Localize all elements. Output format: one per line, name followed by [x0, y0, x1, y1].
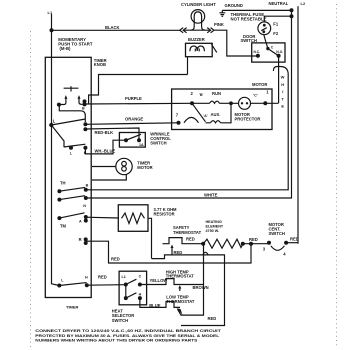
wire cent switch to L2: [286, 242, 298, 244]
junction aux/run: [229, 101, 233, 105]
svg-text:NEUTRAL: NEUTRAL: [269, 1, 289, 6]
wrinkle arm: [126, 134, 141, 140]
wire element to cent switch: [243, 243, 269, 245]
door switch C contact: [266, 47, 269, 50]
svg-text:HEATING: HEATING: [206, 220, 222, 224]
svg-text:THERMOSTAT: THERMOSTAT: [173, 230, 202, 235]
svg-text:RED: RED: [290, 236, 299, 241]
svg-text:CYLINDER LIGHT: CYLINDER LIGHT: [181, 2, 216, 7]
label WHITE vertical: [281, 75, 285, 109]
svg-text:THERMOSTAT: THERMOSTAT: [166, 274, 195, 279]
svg-text:'A': 'A': [203, 114, 208, 118]
svg-text:TIMER: TIMER: [66, 305, 79, 310]
svg-text:1A: 1A: [139, 143, 144, 147]
wire ORANGE: [85, 123, 178, 125]
timer arm TM-A: [59, 213, 84, 218]
wire YELLOW + high temp thermostat: [140, 279, 204, 285]
timer L junction: [49, 123, 53, 127]
svg-text:MOTOR: MOTOR: [252, 82, 267, 87]
low stat arrowhead: [177, 308, 183, 315]
buzzer box: [186, 43, 213, 56]
svg-text:RED: RED: [174, 250, 183, 255]
svg-text:N: N: [83, 204, 86, 208]
motor box: [172, 89, 272, 130]
timer H row: L contact: [57, 284, 61, 288]
wire door N.O. down to motor: [278, 56, 280, 103]
svg-text:PINK: PINK: [214, 22, 224, 27]
timer L-B contacts (lower): [69, 146, 73, 150]
svg-text:4750 W.: 4750 W.: [206, 229, 220, 233]
svg-text:NUMBERS WHEN WRITING ABOUT THI: NUMBERS WHEN WRITING ABOUT THIS DRYER OR…: [35, 337, 197, 342]
resistor box: [118, 205, 148, 232]
svg-text:WHITE: WHITE: [204, 192, 218, 197]
svg-text:BUZZER: BUZZER: [188, 37, 205, 42]
svg-text:THERMOSTAT: THERMOSTAT: [166, 299, 195, 304]
junction element right: [241, 242, 245, 246]
safety thermostat: [163, 238, 203, 244]
motor contact 7: [177, 121, 181, 125]
buzzer left lead: [187, 57, 189, 75]
ground symbol: [219, 10, 225, 16]
wire L2 vertical to heating row: [297, 6, 299, 243]
door switch N.O. contact: [277, 54, 281, 58]
motor contact 1: [263, 101, 267, 105]
svg-text:H: H: [139, 292, 142, 296]
svg-text:AUX.: AUX.: [211, 112, 221, 117]
wire buzzer feed: [89, 75, 188, 104]
buzzer coil: [190, 46, 205, 51]
selector contacts: [124, 283, 128, 287]
selector common link: [125, 285, 127, 299]
timer B contact: [84, 188, 88, 192]
svg-text:RESISTOR: RESISTOR: [154, 212, 175, 217]
svg-text:RED: RED: [111, 257, 120, 262]
wire manifold leg through brown to low stat: [178, 244, 204, 315]
timer arm L lower fan: [51, 125, 64, 147]
wire BLACK horizontal: [52, 29, 181, 31]
right margin dotted border: [336, 4, 338, 348]
selector arm upper: [126, 279, 137, 284]
junction r-wire/heating row: [249, 242, 253, 246]
svg-text:BLUE: BLUE: [149, 303, 161, 308]
heat selector switch box: [119, 271, 147, 305]
motor protector: [239, 97, 251, 109]
svg-text:SWITCH: SWITCH: [150, 141, 166, 146]
timer N contact: [84, 196, 88, 200]
svg-text:F2: F2: [273, 31, 279, 36]
timer arm L-H: [59, 283, 86, 286]
svg-text:TM: TM: [60, 223, 67, 228]
timer arm TH-B: [59, 187, 85, 191]
svg-text:BLACK: BLACK: [105, 25, 120, 30]
left margin dotted border: [30, 31, 32, 348]
svg-text:R: R: [79, 237, 82, 242]
aux winding coil: [206, 103, 232, 123]
svg-text:WH.-BLUE: WH.-BLUE: [95, 149, 116, 154]
bottom note text: [35, 328, 221, 342]
svg-text:RUN: RUN: [212, 91, 221, 96]
door switch arm: [268, 49, 278, 56]
wire RED timer H to selector: [87, 284, 126, 287]
wire under cylinder light: [183, 29, 210, 31]
timer arm L to M: [51, 119, 85, 125]
svg-text:(M-B): (M-B): [60, 46, 72, 51]
svg-text:A: A: [79, 219, 82, 223]
svg-text:RED: RED: [98, 274, 107, 279]
wire push left contact hook to M: [59, 105, 85, 122]
svg-text:MOTOR: MOTOR: [137, 165, 152, 170]
wrinkle contacts: [124, 138, 128, 142]
svg-text:N.C.: N.C.: [254, 50, 261, 54]
svg-text:GROUND: GROUND: [225, 3, 243, 8]
svg-text:H: H: [281, 82, 284, 87]
push-to-start switch: [57, 86, 87, 106]
svg-text:L1: L1: [48, 10, 53, 15]
selector arm lower: [126, 293, 137, 298]
svg-text:ORANGE: ORANGE: [125, 116, 143, 121]
svg-text:I: I: [282, 89, 283, 94]
run winding coil: [192, 101, 239, 103]
svg-text:N.O.: N.O.: [276, 50, 283, 54]
wire RED-BLK to wrinkle switch: [85, 128, 139, 140]
wire protector to contact 1 and out: [251, 102, 279, 104]
door switch N.C. contact: [256, 54, 260, 58]
timer M contacts: [83, 122, 87, 126]
timer TH contacts: [57, 189, 61, 193]
wire resistor right lead: [148, 218, 152, 258]
svg-text:KNOB: KNOB: [94, 62, 106, 67]
junction neutral/top: [290, 8, 294, 12]
svg-text:B: B: [82, 107, 85, 111]
wire A to resistor: [86, 216, 119, 219]
svg-text:NOT RESETABLE: NOT RESETABLE: [231, 16, 267, 21]
wire WH.-BLUE: [85, 140, 126, 154]
motor contact 2: [190, 101, 194, 105]
svg-text:L1: L1: [122, 275, 126, 279]
wrinkle control switch box: [119, 133, 145, 148]
arrow tap to safety stat: [171, 247, 173, 255]
heating element zigzag: [203, 239, 243, 248]
timer motor: [92, 158, 132, 180]
svg-text:RED: RED: [208, 316, 217, 321]
svg-text:ELEMENT: ELEMENT: [206, 224, 224, 228]
svg-text:RED-BLK: RED-BLK: [95, 130, 114, 135]
junction L1/black: [50, 28, 54, 32]
svg-text:RED: RED: [186, 237, 195, 242]
svg-text:SWITCH: SWITCH: [269, 231, 285, 236]
motor arm 2 to aux: [192, 103, 206, 122]
svg-text:H: H: [85, 276, 88, 280]
cylinder light lamp: [191, 10, 206, 31]
svg-text:F1: F1: [273, 22, 279, 27]
svg-text:'C': 'C': [253, 93, 258, 97]
timer box: [45, 57, 91, 297]
connector chevrons left (black wire): [180, 28, 187, 33]
timer R contacts: [84, 237, 88, 241]
wire white1 from bracket down to timer B: [86, 75, 288, 190]
junction neutral/fuse: [290, 14, 294, 18]
motor centrifugal switch: [267, 241, 271, 245]
junction element left: [201, 242, 205, 246]
connector chevrons right (pink wire): [207, 28, 214, 33]
wire PURPLE: [85, 102, 193, 105]
svg-text:L2: L2: [301, 1, 306, 6]
svg-text:E: E: [281, 104, 284, 109]
wire pink to door switch N.C.: [214, 30, 258, 56]
svg-text:YELLOW: YELLOW: [150, 278, 168, 283]
harness bracket: [273, 67, 288, 75]
svg-text:TH: TH: [60, 180, 66, 185]
wire L1 bus vertical: [52, 14, 60, 286]
thermal fuse F1-F2: [258, 16, 292, 48]
wire BLUE + low temp thermostat: [140, 298, 180, 307]
svg-text:'B': 'B': [199, 93, 204, 97]
svg-text:B: B: [86, 183, 89, 187]
timer arm TH-N: [59, 196, 85, 200]
svg-text:PROTECTOR: PROTECTOR: [235, 117, 261, 122]
svg-text:RED: RED: [249, 237, 258, 242]
manifold hop bump: [203, 252, 208, 255]
timer TM contact: [57, 216, 61, 220]
svg-text:W: W: [281, 75, 285, 80]
wire neutral top horizontal: [222, 9, 291, 11]
resistor zigzag: [122, 213, 145, 224]
svg-text:C: C: [139, 275, 142, 279]
wire R to heating row: [86, 241, 251, 263]
buzzer right lead: [211, 44, 216, 52]
svg-text:SWITCH: SWITCH: [112, 318, 128, 323]
svg-text:BROWN: BROWN: [193, 285, 209, 290]
svg-text:PURPLE: PURPLE: [125, 96, 142, 101]
door switch box: [252, 43, 285, 62]
centrifugal arc: [184, 117, 199, 122]
high stat arrow: [179, 288, 181, 291]
svg-text:SWITCH: SWITCH: [241, 38, 257, 43]
wire red manifold + outer loop: [152, 255, 225, 326]
timer H contact: [85, 283, 89, 287]
wire neutral vertical + white wire to timer N: [86, 10, 292, 198]
timer A contacts: [84, 215, 88, 219]
